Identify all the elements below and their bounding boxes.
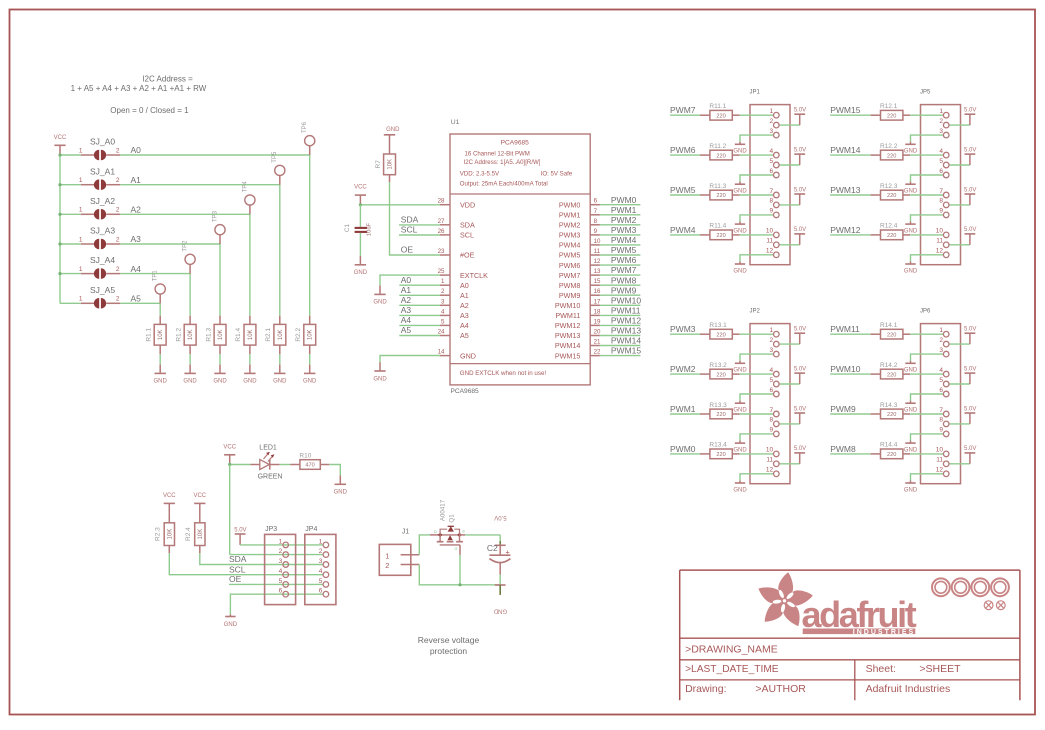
- svg-text:PWM14: PWM14: [611, 336, 642, 346]
- svg-text:1 + A5 + A4 + A3 + A2 + A1 +A1: 1 + A5 + A4 + A3 + A2 + A1 +A1 + RW: [71, 84, 207, 93]
- wire net PWM0: [600, 195, 641, 205]
- svg-text:JP5: JP5: [920, 89, 931, 95]
- svg-text:PWM1: PWM1: [559, 211, 581, 220]
- svg-text:PWM8: PWM8: [611, 275, 637, 285]
- svg-text:A2: A2: [460, 301, 469, 310]
- pin 13 PWM7 of U1: [559, 268, 601, 280]
- resistor R14.3 220: [871, 402, 911, 419]
- wire net A0: [120, 155, 309, 316]
- pin 7 of JP5: [939, 188, 949, 198]
- svg-text:Reverse voltage: Reverse voltage: [418, 635, 480, 645]
- pin 5 of JP2: [769, 377, 779, 387]
- pin 12 of JP6: [936, 467, 949, 477]
- title block frame: [680, 570, 1020, 700]
- wire ground to JP6 pin 6: [911, 394, 944, 401]
- svg-text:R12.2: R12.2: [880, 143, 898, 150]
- connector JP1 body: [750, 89, 791, 264]
- pin 6 PWM0 of U1: [559, 198, 600, 210]
- pin 2 of JP1: [769, 118, 779, 128]
- svg-text:R10: R10: [299, 452, 311, 459]
- wire net A2: [120, 214, 250, 315]
- capacitor C1 10uF: [344, 205, 373, 236]
- svg-text:7: 7: [939, 407, 943, 414]
- power 5.0V at JP6 pin 8: [964, 406, 976, 424]
- svg-text:TP4: TP4: [242, 181, 248, 193]
- svg-text:3: 3: [769, 347, 773, 354]
- svg-text:TP1: TP1: [153, 270, 159, 282]
- wire EXTCLK to ground: [380, 275, 440, 286]
- pin 11 of JP1: [766, 238, 779, 248]
- pin 4 of JP5: [939, 148, 949, 158]
- wire VCC to SJ_A2 pin 1: [58, 213, 80, 216]
- svg-text:PWM10: PWM10: [555, 301, 581, 310]
- wire ground to JP6 pin 9: [911, 434, 944, 441]
- svg-text:R1.4: R1.4: [235, 328, 242, 342]
- svg-text:A5: A5: [401, 325, 412, 335]
- pin 17 PWM10 of U1: [555, 298, 601, 310]
- wire R14.2 to JP6 pin 4: [910, 373, 943, 375]
- svg-text:1: 1: [769, 108, 773, 115]
- wire net PWM5: [670, 185, 700, 195]
- wire net PWM2: [600, 215, 641, 225]
- test point TP2: [183, 240, 196, 274]
- pin 2 of JP6: [939, 337, 949, 347]
- power 5.0V at JP2 pin 2: [794, 327, 806, 345]
- pin 5 of JP3: [279, 578, 289, 587]
- svg-text:GND: GND: [493, 607, 507, 613]
- pin 1 of JP5: [939, 108, 949, 118]
- svg-text:SJ_A3: SJ_A3: [90, 226, 115, 236]
- svg-text:3: 3: [279, 558, 283, 565]
- svg-text:220: 220: [887, 113, 896, 119]
- wire R13.3 to JP2 pin 7: [740, 413, 774, 415]
- wire net PWM15: [830, 105, 870, 115]
- resistor R7 10K: [375, 135, 396, 175]
- wire R2.2 to ground: [309, 345, 311, 365]
- ground below R10: [334, 476, 348, 496]
- svg-text:JP6: JP6: [920, 308, 931, 314]
- svg-text:A4: A4: [131, 264, 142, 274]
- svg-text:R14.4: R14.4: [880, 442, 898, 449]
- resistor R12.1 220: [871, 103, 911, 120]
- resistor R14.1 220: [871, 322, 911, 339]
- svg-text:>LAST_DATE_TIME: >LAST_DATE_TIME: [685, 664, 779, 675]
- svg-text:GND: GND: [373, 376, 387, 382]
- svg-text:GND: GND: [183, 379, 197, 385]
- ground below R1.4: [243, 365, 257, 385]
- wire 5.0V to JP6 pin 2: [949, 343, 970, 345]
- wire net A4: [120, 274, 190, 316]
- svg-text:GND: GND: [213, 379, 227, 385]
- pin 1 of JP4: [319, 538, 329, 547]
- svg-text:PWM2: PWM2: [559, 221, 581, 230]
- wire net SCL: [399, 224, 440, 235]
- svg-text:23: 23: [438, 248, 445, 255]
- connector JP2 body: [750, 308, 791, 483]
- svg-text:4: 4: [939, 367, 943, 374]
- svg-text:3: 3: [769, 128, 773, 135]
- resistor R14.2 220: [871, 362, 911, 379]
- svg-text:7: 7: [769, 188, 773, 195]
- wire net PWM14: [830, 145, 870, 155]
- power 5.0V at JP1 pin 11: [794, 227, 806, 245]
- pin 7 of JP1: [769, 188, 779, 198]
- svg-text:2: 2: [116, 296, 120, 303]
- svg-text:GND: GND: [904, 189, 918, 195]
- power 5.0V at JP6 pin 5: [964, 366, 976, 384]
- wire 5.0V to JP2 pin 5: [779, 383, 800, 385]
- svg-text:2: 2: [385, 561, 389, 570]
- svg-text:1: 1: [79, 236, 83, 243]
- svg-text:12: 12: [594, 258, 601, 265]
- power VCC (LED / header rail): [223, 444, 236, 464]
- svg-text:7: 7: [939, 188, 943, 195]
- svg-text:6: 6: [769, 168, 773, 175]
- svg-text:8: 8: [939, 198, 943, 205]
- logo adafruit flower: [758, 572, 812, 626]
- svg-text:R2.4: R2.4: [185, 527, 192, 541]
- pin 6 of JP5: [939, 168, 949, 178]
- ground at JP6 pin 9: [904, 441, 918, 454]
- svg-text:SJ_A5: SJ_A5: [90, 285, 115, 295]
- svg-text:9: 9: [769, 208, 773, 215]
- svg-text:R13.1: R13.1: [709, 322, 727, 329]
- resistor R12.4 220: [871, 223, 911, 240]
- svg-text:28: 28: [438, 198, 445, 205]
- svg-text:R14.2: R14.2: [880, 362, 898, 369]
- svg-text:GND: GND: [303, 379, 317, 385]
- svg-text:TP5: TP5: [272, 151, 278, 163]
- wire net PWM7: [600, 265, 641, 275]
- wire 5.0V to JP3/JP4 pin 1: [240, 544, 323, 546]
- pin 3 A2 of U1: [440, 298, 469, 310]
- svg-text:A1: A1: [131, 175, 142, 185]
- svg-text:2: 2: [116, 207, 120, 214]
- svg-text:PWM15: PWM15: [830, 105, 861, 115]
- pin 7 of JP6: [939, 407, 949, 417]
- node A4 label: [131, 264, 142, 274]
- pin 15 PWM8 of U1: [559, 278, 601, 290]
- svg-text:GND: GND: [224, 622, 238, 628]
- svg-text:A0: A0: [460, 281, 469, 290]
- svg-text:9: 9: [939, 427, 943, 434]
- pin 9 of JP5: [939, 208, 949, 218]
- svg-text:PWM6: PWM6: [559, 261, 581, 270]
- svg-text:220: 220: [716, 452, 725, 458]
- svg-text:+: +: [505, 547, 510, 556]
- power 5.0V at JP2 pin 11: [794, 446, 806, 464]
- svg-text:5.0V: 5.0V: [964, 406, 976, 412]
- svg-text:PWM4: PWM4: [611, 235, 637, 245]
- wire 5.0V to JP6 pin 11: [949, 463, 970, 465]
- wire ground to JP2 pin 12: [740, 474, 774, 481]
- wire ground to JP2 pin 6: [740, 394, 774, 401]
- wire R1.1 to ground: [159, 345, 161, 365]
- svg-text:GND: GND: [904, 268, 918, 274]
- svg-text:PWM8: PWM8: [559, 281, 581, 290]
- svg-text:GREEN: GREEN: [258, 474, 283, 481]
- svg-text:D: D: [434, 530, 437, 534]
- svg-text:220: 220: [887, 332, 896, 338]
- ground above R7: [384, 127, 400, 135]
- wire ground to JP6 pin 12: [911, 474, 944, 481]
- svg-text:EXTCLK: EXTCLK: [460, 271, 488, 280]
- svg-text:8: 8: [769, 417, 773, 424]
- svg-text:GND EXTCLK when not in use!: GND EXTCLK when not in use!: [460, 370, 547, 377]
- wire ground to JP1 pin 12: [740, 255, 774, 262]
- pin 21 PWM14 of U1: [555, 339, 601, 351]
- svg-text:2: 2: [319, 548, 323, 555]
- svg-text:GND: GND: [904, 149, 918, 155]
- svg-text:PWM12: PWM12: [830, 225, 861, 235]
- power 5.0V at JP5 pin 11: [964, 227, 976, 245]
- svg-text:5.0V: 5.0V: [794, 327, 806, 333]
- svg-text:TP3: TP3: [212, 210, 218, 222]
- svg-text:5: 5: [769, 158, 773, 165]
- svg-text:A3: A3: [131, 234, 142, 244]
- svg-text:VCC: VCC: [163, 493, 176, 499]
- wire 5.0V to JP1 pin 8: [779, 204, 800, 206]
- svg-text:22: 22: [594, 349, 601, 356]
- pin 8 of JP5: [939, 198, 949, 208]
- svg-text:2: 2: [116, 236, 120, 243]
- svg-text:VCC: VCC: [354, 185, 367, 191]
- svg-text:PCA9685: PCA9685: [451, 388, 480, 395]
- svg-text:A2: A2: [401, 295, 412, 305]
- wire net PWM6: [600, 255, 641, 265]
- wire net A5: [120, 303, 160, 315]
- svg-text:5.0V: 5.0V: [794, 108, 806, 114]
- svg-text:10K: 10K: [308, 329, 314, 340]
- svg-text:21: 21: [594, 339, 601, 346]
- svg-text:GND: GND: [154, 379, 168, 385]
- pin 16 PWM9 of U1: [559, 288, 601, 300]
- ground below R2.1: [273, 365, 287, 385]
- wire net PWM3: [670, 324, 700, 334]
- svg-text:PCA9685: PCA9685: [501, 139, 530, 146]
- wire ground to JP2 pin 9: [740, 434, 774, 441]
- wire ground to JP5 pin 9: [911, 215, 944, 222]
- svg-text:SCL: SCL: [460, 231, 474, 240]
- svg-text:GND: GND: [373, 300, 387, 306]
- svg-text:PWM15: PWM15: [611, 346, 642, 356]
- svg-text:1: 1: [79, 296, 83, 303]
- resistor R1.3 10K: [205, 316, 226, 345]
- svg-text:4: 4: [441, 308, 445, 315]
- svg-text:PWM10: PWM10: [830, 364, 861, 374]
- svg-text:IO: 5V Safe: IO: 5V Safe: [541, 170, 573, 177]
- svg-text:R11.1: R11.1: [709, 103, 726, 110]
- pin 5 A4 of U1: [440, 318, 469, 330]
- resistor R11.4 220: [700, 223, 740, 240]
- svg-text:9: 9: [769, 427, 773, 434]
- svg-text:11: 11: [594, 248, 601, 255]
- wire net A3: [120, 244, 220, 316]
- resistor R13.2 220: [700, 362, 740, 379]
- pin 4 of JP3: [279, 568, 289, 577]
- svg-text:2: 2: [116, 177, 120, 184]
- svg-text:5.0V: 5.0V: [964, 366, 976, 372]
- power 5.0V at JP5 pin 2: [964, 108, 976, 126]
- svg-text:5: 5: [769, 377, 773, 384]
- resistor R11.1 220: [700, 103, 740, 120]
- resistor R2.2 10K: [295, 316, 316, 345]
- pin 6 of JP1: [769, 168, 779, 178]
- ground on IC pin 14: [373, 362, 387, 382]
- svg-text:11: 11: [936, 457, 943, 464]
- pin 5 of JP4: [319, 578, 329, 587]
- wire ground to JP5 pin 6: [911, 175, 944, 182]
- svg-text:5.0V: 5.0V: [794, 366, 806, 372]
- pin 8 PWM2 of U1: [559, 218, 600, 230]
- svg-text:VDD: 2.3-5.5V: VDD: 2.3-5.5V: [460, 170, 500, 177]
- svg-text:6: 6: [939, 168, 943, 175]
- svg-text:PWM11: PWM11: [830, 324, 860, 334]
- wire net PWM1: [670, 404, 700, 414]
- svg-text:3: 3: [319, 558, 323, 565]
- resistor R2.4 10K: [185, 513, 205, 545]
- svg-text:A3: A3: [460, 311, 469, 320]
- svg-text:14: 14: [438, 349, 445, 356]
- svg-text:PWM5: PWM5: [611, 245, 637, 255]
- wire R13.1 to JP2 pin 1: [740, 333, 774, 335]
- svg-text:5: 5: [279, 578, 283, 585]
- svg-text:3: 3: [939, 347, 943, 354]
- solder jumper SJ_A5: [79, 285, 120, 309]
- wire 5.0V to JP2 pin 11: [779, 463, 800, 465]
- connector JP4 body: [305, 526, 336, 605]
- wire net PWM9: [830, 404, 870, 414]
- resistor R14.4 220: [871, 442, 911, 459]
- wire ground to JP3/JP4 pin 6: [230, 594, 323, 614]
- ground below R1.2: [183, 365, 197, 385]
- ground at JP6 pin 12: [904, 480, 918, 493]
- wire net A0 stub at IC: [399, 275, 440, 285]
- wire net PWM11: [600, 306, 641, 316]
- wire R11.1 to JP1 pin 1: [740, 114, 774, 116]
- wire VCC rail down to JP3 pin 2 row: [229, 465, 231, 555]
- svg-text:5: 5: [319, 578, 323, 585]
- pin 27 SDA of U1: [438, 218, 475, 230]
- title block text fields: [685, 644, 961, 695]
- wire net PWM10: [830, 364, 870, 374]
- resistor R10 470: [290, 452, 329, 469]
- svg-text:1: 1: [79, 147, 83, 154]
- pin 3 of JP3: [279, 558, 289, 567]
- svg-text:GND: GND: [904, 487, 918, 493]
- svg-text:4: 4: [319, 568, 323, 575]
- svg-text:JP3: JP3: [265, 526, 277, 533]
- pin 10 PWM4 of U1: [559, 238, 601, 250]
- svg-text:GND: GND: [334, 490, 348, 496]
- wire R12.3 to JP5 pin 7: [910, 194, 943, 196]
- svg-text:TP6: TP6: [302, 121, 308, 133]
- svg-text:OE: OE: [229, 574, 242, 584]
- pin 3 of JP6: [939, 347, 949, 357]
- svg-text:1: 1: [385, 551, 389, 560]
- svg-text:JP1: JP1: [750, 89, 761, 95]
- svg-text:220: 220: [887, 372, 896, 378]
- wire net PWM13: [830, 185, 870, 195]
- wire ground to JP2 pin 3: [740, 354, 774, 361]
- pin 1 of JP2: [769, 327, 779, 337]
- svg-text:PWM3: PWM3: [611, 225, 637, 235]
- resistor R1.2 10K: [175, 316, 196, 345]
- svg-text:>DRAWING_NAME: >DRAWING_NAME: [685, 644, 778, 656]
- svg-text:PWM2: PWM2: [670, 364, 696, 374]
- svg-text:VDD: VDD: [460, 200, 475, 209]
- ground at JP2 pin 3: [733, 361, 747, 374]
- svg-text:12: 12: [936, 248, 944, 255]
- node SDA label at JP3: [229, 554, 247, 564]
- wire R12.2 to JP5 pin 4: [910, 154, 943, 156]
- svg-text:10K: 10K: [198, 529, 204, 540]
- svg-text:A3: A3: [401, 305, 412, 315]
- svg-text:6: 6: [319, 588, 323, 595]
- pin 2 of JP3: [279, 548, 289, 557]
- svg-text:PWM1: PWM1: [670, 404, 696, 414]
- wire net PWM12: [830, 225, 870, 235]
- svg-text:GND: GND: [733, 368, 747, 374]
- svg-text:11: 11: [766, 238, 773, 245]
- svg-text:SJ_A4: SJ_A4: [90, 255, 115, 265]
- test point TP5: [272, 151, 285, 185]
- svg-text:2: 2: [769, 337, 773, 344]
- power VCC (VDD net): [354, 185, 367, 205]
- svg-text:5.0V: 5.0V: [794, 147, 806, 153]
- svg-text:PWM11: PWM11: [555, 311, 580, 320]
- svg-text:5.0V: 5.0V: [494, 514, 506, 520]
- svg-text:11: 11: [936, 238, 943, 245]
- wire net PWM2: [670, 364, 700, 374]
- ground (inverted) at C2: [493, 585, 507, 613]
- pin 5 of JP6: [939, 377, 949, 387]
- pin 3 of JP1: [769, 128, 779, 138]
- title block ring icons: [932, 578, 1009, 596]
- svg-text:10: 10: [766, 447, 774, 454]
- pin 10 of JP6: [936, 447, 949, 457]
- svg-text:20: 20: [594, 329, 601, 336]
- svg-text:TP2: TP2: [183, 240, 189, 252]
- svg-text:GND: GND: [733, 408, 747, 414]
- svg-text:6: 6: [769, 387, 773, 394]
- wire R2.1 to ground: [279, 345, 281, 365]
- svg-text:19: 19: [594, 318, 601, 325]
- svg-text:PWM6: PWM6: [670, 145, 696, 155]
- wire VDD net: [359, 203, 440, 206]
- pin 6 of JP6: [939, 387, 949, 397]
- svg-text:PWM13: PWM13: [830, 185, 861, 195]
- resistor R11.3 220: [700, 183, 740, 200]
- svg-text:SCL: SCL: [229, 564, 246, 574]
- svg-text:R2.1: R2.1: [265, 328, 272, 342]
- solder jumper SJ_A2: [79, 196, 120, 220]
- svg-text:I2C Address =: I2C Address =: [142, 75, 193, 84]
- svg-text:INDUSTRIES: INDUSTRIES: [853, 629, 915, 636]
- wire 5.0V to JP5 pin 5: [949, 164, 970, 166]
- power 5.0V at JP2 pin 5: [794, 366, 806, 384]
- svg-text:R13.3: R13.3: [709, 402, 727, 409]
- svg-text:1: 1: [939, 108, 943, 115]
- ground at JP6 pin 6: [904, 401, 918, 414]
- svg-text:R12.1: R12.1: [880, 103, 898, 110]
- pin 4 of JP4: [319, 568, 329, 577]
- svg-text:2: 2: [939, 118, 943, 125]
- test point TP4: [242, 181, 255, 215]
- svg-text:5.0V: 5.0V: [794, 227, 806, 233]
- svg-text:C1: C1: [344, 223, 351, 232]
- svg-text:PWM7: PWM7: [611, 265, 637, 275]
